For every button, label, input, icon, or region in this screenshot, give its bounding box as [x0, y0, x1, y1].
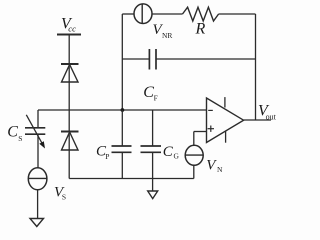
svg-text:P: P — [105, 152, 109, 161]
wire CG column bottom — [152, 152, 154, 178]
wire Vcc column — [68, 35, 70, 179]
op-amp top supply pin — [224, 97, 226, 107]
diode D2 — [61, 132, 79, 151]
label Vcc — [61, 15, 76, 33]
CS variable arrow — [26, 115, 45, 149]
svg-text:V: V — [206, 158, 217, 174]
wire VS to ground — [37, 190, 39, 219]
svg-text:NR: NR — [162, 31, 172, 40]
wire VNR to R — [152, 13, 183, 15]
svg-text:S: S — [18, 134, 22, 143]
diode D1 — [61, 64, 79, 82]
wire feedback-cap right segment — [156, 58, 256, 60]
wire CP column top — [121, 110, 123, 146]
op-amp bottom supply pin — [225, 131, 227, 143]
capacitor CS — [25, 128, 45, 134]
capacitor CG — [141, 146, 162, 152]
wire main horizontal — [38, 109, 207, 111]
wire CP column bottom — [121, 152, 123, 178]
wire plus-input vertical — [193, 132, 195, 146]
label VN — [206, 158, 223, 175]
voltage source VNR — [134, 4, 152, 24]
svg-text:out: out — [266, 112, 277, 121]
label CS — [7, 123, 22, 143]
wire plus-input horizontal — [194, 131, 207, 133]
voltage source VN — [185, 145, 203, 165]
wire left column — [121, 14, 123, 110]
ground (middle) — [148, 191, 158, 199]
label CP — [96, 143, 109, 161]
wire CS column top — [37, 110, 39, 128]
svg-text:R: R — [195, 21, 206, 38]
ground stem (middle) — [152, 179, 154, 192]
label VNR — [153, 22, 173, 40]
label Vout — [258, 103, 277, 122]
svg-text:N: N — [217, 165, 223, 174]
wire R to right column — [219, 13, 256, 15]
voltage source VS — [28, 168, 47, 190]
svg-text:F: F — [154, 94, 158, 103]
svg-text:G: G — [174, 151, 180, 160]
wire CG column top — [152, 110, 154, 146]
label VS — [54, 185, 66, 202]
wire bottom rail — [69, 178, 194, 180]
op-amp U1 — [207, 97, 244, 143]
wire CS column bottom — [37, 134, 39, 168]
svg-text:cc: cc — [68, 24, 76, 34]
wire VN to rail — [193, 165, 195, 178]
wire right column — [255, 14, 257, 120]
svg-text:C: C — [163, 144, 174, 160]
label CF — [143, 84, 158, 103]
svg-text:S: S — [62, 193, 66, 202]
wire top-left segment — [122, 13, 134, 15]
wire feedback-cap left segment — [122, 58, 149, 60]
label CG — [163, 144, 180, 161]
junction dot node A — [121, 108, 125, 112]
ground (VS) — [30, 219, 44, 227]
capacitor CP — [112, 146, 132, 152]
wire output — [244, 119, 271, 121]
svg-text:C: C — [143, 84, 154, 101]
Vcc supply bar — [57, 34, 81, 36]
resistor R — [183, 7, 219, 21]
capacitor CF — [149, 49, 156, 70]
svg-text:C: C — [7, 123, 18, 140]
